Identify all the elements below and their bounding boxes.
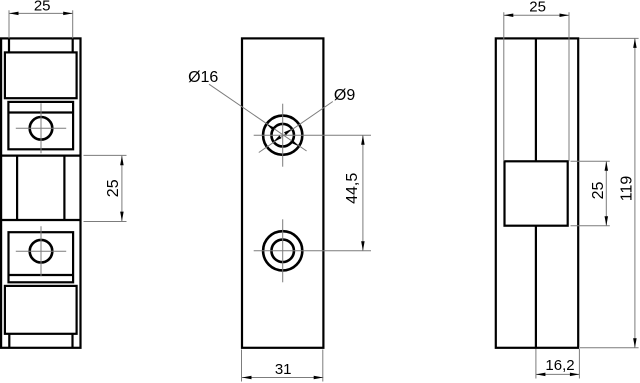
svg-text:119: 119 <box>618 176 635 202</box>
svg-text:25: 25 <box>34 0 51 15</box>
svg-text:25: 25 <box>590 182 607 200</box>
svg-text:Ø16: Ø16 <box>188 69 218 86</box>
svg-text:31: 31 <box>275 361 292 378</box>
svg-text:44,5: 44,5 <box>344 173 361 204</box>
svg-text:25: 25 <box>529 0 546 15</box>
svg-text:16,2: 16,2 <box>545 357 574 374</box>
svg-text:25: 25 <box>105 179 122 197</box>
svg-text:Ø9: Ø9 <box>334 87 355 104</box>
